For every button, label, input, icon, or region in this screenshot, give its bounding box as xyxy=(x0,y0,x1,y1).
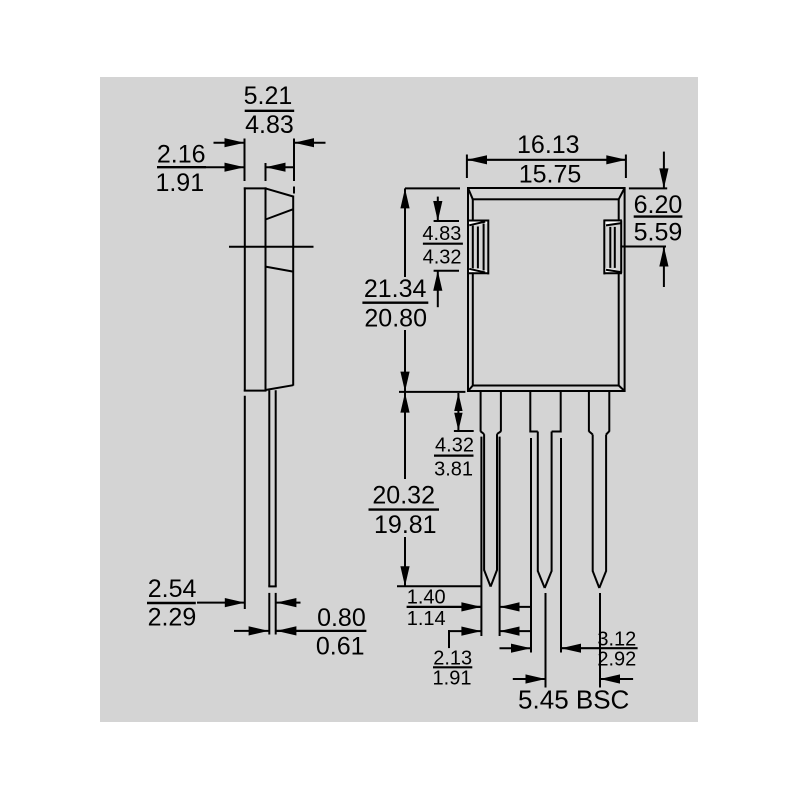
right mounting notch inner line 1 xyxy=(609,227,611,268)
dimension 2.13/1.91 right arrow xyxy=(500,627,532,636)
side view top chamfer line xyxy=(266,188,294,196)
svg-text:1.91: 1.91 xyxy=(433,668,472,690)
dimension 2.54/2.29 label xyxy=(147,575,197,631)
left mounting notch outline xyxy=(468,220,488,275)
dimension 1.40/1.14 label and left arrow xyxy=(407,587,482,630)
lead 1 narrow right edge xyxy=(496,434,498,570)
svg-text:5.59: 5.59 xyxy=(634,219,683,247)
lead 2 narrow left edge xyxy=(537,432,539,572)
dimension 3.12/2.92 label and right arrow xyxy=(561,628,638,670)
svg-text:19.81: 19.81 xyxy=(374,511,437,539)
side view body bottom edge xyxy=(244,390,267,392)
extension line lead left bottom xyxy=(268,593,270,635)
dimension 2.13/1.91 leader xyxy=(448,627,481,649)
svg-text:4.83: 4.83 xyxy=(422,223,461,245)
dimension 21.34/20.80 line xyxy=(400,188,409,391)
lead 2 left shoulder step xyxy=(530,431,538,433)
extension line inner edge top xyxy=(265,163,267,181)
lead 3 narrow right edge xyxy=(605,435,607,572)
extension line body right top xyxy=(293,139,295,194)
svg-text:1.14: 1.14 xyxy=(407,608,446,630)
svg-text:3.12: 3.12 xyxy=(597,628,636,650)
side view lead right edge xyxy=(275,390,277,586)
dimension 0.80/0.61 label and right arrow xyxy=(276,604,366,661)
dimension 4.83/4.32 lower arrow xyxy=(433,271,442,307)
side view mid facet line xyxy=(266,267,294,272)
svg-text:0.80: 0.80 xyxy=(317,604,366,632)
front view outer outline xyxy=(468,188,625,391)
right mounting notch inner line 2 xyxy=(614,227,616,268)
svg-text:4.32: 4.32 xyxy=(435,435,474,457)
left mounting notch white facet bottom xyxy=(469,268,487,273)
svg-text:2.92: 2.92 xyxy=(597,649,636,671)
dimension 1.40/1.14 right arrow xyxy=(500,602,532,611)
dimension 4.32/3.81 label xyxy=(434,435,474,481)
extension line lead 3 center xyxy=(599,593,601,688)
dimension 3.12/2.92 left arrow xyxy=(500,644,532,653)
dimension 4.83/4.32 upper arrow xyxy=(433,197,442,221)
dimension 6.20 lower arrow xyxy=(659,247,668,288)
svg-text:16.13: 16.13 xyxy=(517,131,580,159)
dimension 20.32 bottom tick xyxy=(397,585,481,587)
lead 1 narrow left edge xyxy=(483,434,485,570)
side view upper facet line xyxy=(266,209,294,219)
extension line body left front xyxy=(466,155,468,179)
lead 3 wide right edge xyxy=(608,392,610,432)
extension line lead 1 right xyxy=(499,437,501,636)
right mounting notch white facet top xyxy=(605,221,620,226)
dimension 0.80/0.61 left arrow xyxy=(234,626,269,635)
right mounting notch facet mask xyxy=(605,221,620,272)
extension line body left top xyxy=(244,139,246,182)
svg-text:20.32: 20.32 xyxy=(372,481,435,509)
right mounting notch bottom chamfer xyxy=(606,270,621,272)
left mounting notch white facet top xyxy=(469,221,487,226)
lead 3 narrow left edge xyxy=(592,435,594,572)
svg-text:5.21: 5.21 xyxy=(244,82,293,110)
dimension 6.20 top tick xyxy=(629,187,667,189)
dimension 21.34/20.80 label xyxy=(362,275,428,332)
lead 2 right shoulder step xyxy=(552,431,561,433)
lead 1 wide left edge xyxy=(480,392,482,432)
svg-text:4.32: 4.32 xyxy=(423,247,462,269)
dimension 5.21/4.83 left arrow xyxy=(214,138,245,147)
dimension 21.34 top tick xyxy=(405,187,460,189)
dimension 6.20 bottom tick xyxy=(620,246,666,248)
lead 3 wide left edge xyxy=(588,392,590,432)
extension line lead 2 left xyxy=(530,438,532,653)
extension line lead 2 center xyxy=(545,593,547,688)
left mounting notch inner line 2 xyxy=(483,224,485,271)
left mounting notch top chamfer xyxy=(469,222,485,226)
svg-text:20.80: 20.80 xyxy=(364,304,427,332)
dimension 20.32/19.81 line xyxy=(400,392,409,586)
dimension 16.13/15.75 label xyxy=(517,131,581,188)
svg-text:0.61: 0.61 xyxy=(316,633,365,661)
drawing panel background xyxy=(100,77,698,722)
svg-text:3.81: 3.81 xyxy=(434,458,473,480)
svg-text:4.83: 4.83 xyxy=(245,111,294,139)
lead 1 left shoulder chamfer xyxy=(481,431,485,434)
side view body left edge xyxy=(244,187,246,391)
svg-text:2.29: 2.29 xyxy=(148,603,197,631)
dimension 4.32/3.81 shoulder tick xyxy=(454,430,474,432)
right mounting notch white facet bottom xyxy=(605,268,620,273)
lead 1 wide right edge xyxy=(500,392,502,432)
dimension 2.54/2.29 right arrow xyxy=(276,598,300,607)
dimension 21.34 bottom tick xyxy=(399,391,465,393)
dimension 5.45 BSC right arrow xyxy=(600,674,633,683)
svg-text:2.54: 2.54 xyxy=(148,575,197,603)
side view bottom facet line xyxy=(266,385,294,390)
dimension 20.32/19.81 label xyxy=(369,481,440,539)
side view lead left edge xyxy=(268,390,270,586)
dimension 6.20 upper arrow xyxy=(659,152,668,189)
dimension 2.16/1.91 left arrow xyxy=(206,163,245,172)
front view corner bevel bottom-left xyxy=(468,386,473,392)
dimension 5.21/4.83 label xyxy=(244,82,295,139)
dimension 2.13/1.91 label xyxy=(433,648,473,690)
dimension 2.16/1.91 label xyxy=(155,141,206,198)
dimension 6.20/5.59 label xyxy=(634,191,683,246)
lead 3 pointed tip xyxy=(593,571,606,588)
dimension 5.45 BSC label xyxy=(518,685,629,715)
extension line lead right bottom xyxy=(275,593,277,635)
front view corner bevel bottom-right xyxy=(619,386,625,392)
dimension 5.45 BSC left arrow xyxy=(513,674,546,683)
dimension 4.83/4.32 bottom tick xyxy=(434,270,459,272)
extension line lead 2 right xyxy=(560,438,562,653)
svg-text:1.91: 1.91 xyxy=(155,169,204,197)
left mounting notch inner line 1 xyxy=(477,227,479,269)
lead 2 wide right edge xyxy=(560,392,562,433)
side view lead bottom cap xyxy=(268,585,276,587)
extension line body right front xyxy=(625,155,627,179)
lead 3 left shoulder chamfer xyxy=(589,431,593,434)
side view body right edge xyxy=(292,196,294,386)
svg-text:2.16: 2.16 xyxy=(157,141,206,169)
svg-text:6.20: 6.20 xyxy=(634,191,683,219)
extension line lead 1 left xyxy=(480,437,482,636)
right mounting notch outline xyxy=(604,220,622,275)
dimension 4.32/3.81 double arrow xyxy=(454,393,462,431)
side view datum line xyxy=(229,246,314,248)
svg-text:5.45 BSC: 5.45 BSC xyxy=(518,685,629,715)
dimension 4.83/4.32 label xyxy=(422,223,462,268)
svg-text:15.75: 15.75 xyxy=(519,160,582,188)
dimension 5.21/4.83 right arrow xyxy=(294,138,326,147)
left mounting notch bottom chamfer xyxy=(469,269,485,273)
lead 3 right shoulder chamfer xyxy=(606,431,609,434)
svg-text:1.40: 1.40 xyxy=(407,587,446,609)
front view corner bevel top-left xyxy=(468,188,473,199)
lead 2 narrow right edge xyxy=(551,432,553,572)
lead 1 pointed tip xyxy=(484,570,497,587)
dimension 2.16/1.91 right arrow xyxy=(266,163,295,172)
lead 1 right shoulder chamfer xyxy=(497,431,501,434)
side view body inner line xyxy=(265,187,267,390)
dimension 4.83/4.32 top tick xyxy=(434,220,459,222)
extension line body left bottom xyxy=(244,396,246,609)
lead 2 pointed tip xyxy=(538,571,552,588)
svg-text:21.34: 21.34 xyxy=(364,275,427,303)
dimension 2.54/2.29 left arrow xyxy=(197,598,245,607)
right mounting notch top chamfer xyxy=(606,223,621,225)
side view body top edge xyxy=(244,187,267,189)
dimension 16.13/15.75 line xyxy=(467,155,626,164)
front view corner bevel top-right xyxy=(619,188,625,199)
front view inner bevel outline xyxy=(473,199,619,385)
lead 2 wide left edge xyxy=(529,392,531,433)
